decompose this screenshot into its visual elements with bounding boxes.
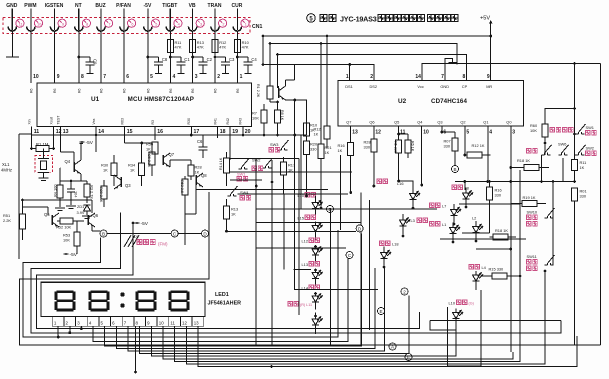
svg-text:5: 5 (155, 22, 157, 26)
wire analog node row (59, 167, 62, 169)
svg-text:8: 8 (81, 74, 84, 80)
wire bus MR line (489, 35, 492, 38)
svg-text:DS2: DS2 (370, 84, 378, 89)
svg-text:C9: C9 (93, 59, 98, 65)
svg-text:R18 1K: R18 1K (517, 158, 530, 163)
crystal XL1 symbol (43, 149, 45, 159)
LED L1 timer minus (430, 222, 440, 226)
wire U2 DS1-DS2 bridge (350, 65, 374, 71)
svg-text:Q0: Q0 (506, 120, 512, 125)
LED L11 fry red (288, 302, 298, 306)
svg-text:L10: L10 (449, 301, 456, 306)
svg-text:JF5461AHER: JF5461AHER (208, 301, 242, 307)
node circle B2 (452, 166, 459, 173)
svg-text:R3: R3 (151, 120, 155, 125)
svg-text:1K: 1K (338, 148, 343, 153)
wire pin16 stub (154, 127, 156, 141)
CN1 circle 6 (128, 19, 136, 27)
resistor R29 2.4K (101, 186, 107, 199)
svg-text:SW1: SW1 (586, 125, 594, 130)
resistor R10 1K col (304, 123, 310, 136)
wire pin19 stub (229, 127, 231, 161)
svg-text:2.2K: 2.2K (3, 218, 11, 223)
svg-text:4: 4 (178, 22, 180, 26)
transistor Q6 (87, 215, 89, 225)
svg-text:TRAN: TRAN (208, 3, 222, 9)
transistor Q4 (73, 162, 75, 172)
svg-text:ZD1: ZD1 (77, 204, 84, 209)
wire maze h 289 (295, 270, 378, 290)
wire maze h 194 (238, 193, 348, 195)
svg-text:SW10: SW10 (527, 210, 538, 215)
long bus under U1 pins (32, 134, 307, 136)
wire right border rail down (600, 64, 602, 346)
resistor R21 1K col2 (318, 144, 324, 159)
wire right junction row (455, 181, 575, 183)
svg-text:-5V: -5V (86, 140, 94, 146)
svg-text:R5 330: R5 330 (394, 141, 398, 153)
resistor R13 1K vertical mid2 (224, 206, 230, 219)
svg-text:R63: R63 (120, 118, 124, 124)
svg-text:7: 7 (441, 74, 444, 80)
svg-text:SW6: SW6 (558, 142, 566, 147)
svg-text:C8: C8 (162, 57, 168, 62)
LED L16 right of chain (377, 179, 387, 183)
shift register U2 box (338, 81, 524, 127)
CN1 circle 9 (58, 19, 66, 27)
svg-text:CD74HC164: CD74HC164 (431, 98, 467, 105)
svg-text:R1 2.2K: R1 2.2K (256, 84, 260, 98)
svg-text:17: 17 (194, 129, 200, 135)
svg-text:Q4: Q4 (417, 120, 423, 125)
svg-text:Q3: Q3 (437, 120, 442, 125)
resistor R14 1K vertical (224, 158, 230, 173)
svg-text:L18: L18 (392, 242, 399, 247)
wire U2 GND elbow and ground (445, 59, 453, 65)
svg-text:5: 5 (466, 130, 469, 136)
-5V arrow analog (80, 141, 85, 143)
wire CN1 VB to U1 pin 3 (192, 31, 194, 83)
display colon dots (120, 292, 124, 296)
key switch SW8 right col 2 (576, 145, 586, 155)
svg-text:(FM): (FM) (158, 242, 168, 247)
wire maze h 222 (256, 222, 361, 224)
wire maze h 209 (256, 208, 437, 210)
wire CN1 IGSTEN to U1 pin 9 (54, 31, 56, 83)
wires display pins 1-3 drop to rings (57, 326, 59, 337)
svg-text:11: 11 (400, 130, 406, 136)
svg-text:R15 330: R15 330 (489, 267, 505, 272)
CN1 circle 8 (82, 19, 90, 27)
resistor R01 330 right col (572, 188, 578, 201)
key switch SW2 hotpot (263, 158, 273, 168)
svg-text:9: 9 (62, 22, 64, 26)
wire maze v 301 (300, 136, 302, 210)
resistor R7 10K (261, 110, 267, 123)
resistor R31 2.2K (182, 179, 188, 195)
svg-text:R29 2.4K: R29 2.4K (99, 187, 103, 203)
svg-text:E: E (379, 309, 382, 314)
svg-text:TIGBT: TIGBT (162, 3, 177, 9)
U2 top pin 2 DS2 (373, 70, 375, 81)
svg-text:R6: R6 (236, 88, 240, 93)
CN1 circle 5 (151, 19, 159, 27)
wire CN1 -5V to U1 pin 5 (147, 31, 149, 83)
svg-text:1K: 1K (146, 147, 151, 152)
key switch SW4 menu (228, 186, 238, 196)
svg-text:R6: R6 (100, 88, 104, 93)
wire mid right rail stub (545, 109, 575, 125)
svg-text:4MHz: 4MHz (1, 168, 12, 173)
resistor R53 10K vertical (74, 232, 80, 246)
svg-text:10K: 10K (530, 128, 537, 133)
svg-text:1K: 1K (325, 150, 330, 155)
node circle D2 mid row (202, 230, 209, 237)
title text JiuYang JYC-19AS3 induction cooker control board schematic (320, 15, 336, 22)
svg-text:3: 3 (512, 130, 515, 136)
svg-text:-5V: -5V (141, 221, 149, 227)
svg-text:3.9V: 3.9V (77, 210, 85, 215)
svg-text:9: 9 (57, 74, 60, 80)
svg-text:47K: 47K (242, 45, 249, 50)
svg-text:Q4: Q4 (65, 159, 71, 164)
svg-text:CN1: CN1 (252, 24, 262, 30)
LED L3 small fire (400, 216, 411, 230)
svg-text:Vcc: Vcc (417, 84, 424, 89)
transistor Q7 (162, 155, 164, 165)
ground below crystal (39, 177, 49, 179)
svg-text:1K: 1K (103, 168, 108, 173)
svg-text:1: 1 (240, 74, 243, 80)
wire CN1 TRAN to U1 pin 2 (214, 31, 216, 83)
filter resistors R11 R13 R12 R10 47K (167, 40, 173, 53)
svg-text:L7: L7 (442, 204, 446, 209)
svg-text:6: 6 (126, 74, 129, 80)
svg-text:R30: R30 (187, 118, 191, 124)
svg-text:13: 13 (352, 130, 358, 136)
svg-text:10K: 10K (63, 238, 70, 243)
svg-text:-5V: -5V (144, 3, 152, 9)
svg-text:R42: R42 (226, 118, 230, 124)
svg-text:C2: C2 (207, 57, 213, 62)
wire pin18 stub (217, 127, 219, 139)
node circle D (356, 225, 363, 232)
svg-text:R52 10K: R52 10K (56, 225, 72, 230)
resistor R51 2.2K (20, 214, 26, 229)
U2 top pin 7 GND (444, 64, 446, 81)
svg-text:14: 14 (415, 74, 421, 80)
wire L16 link (399, 181, 413, 187)
svg-text:10: 10 (33, 74, 39, 80)
svg-text:NT: NT (75, 3, 82, 9)
svg-text:330: 330 (364, 145, 371, 150)
wire -5V mid tap (135, 222, 140, 224)
svg-text:19: 19 (232, 129, 238, 135)
svg-text:1: 1 (245, 22, 247, 26)
svg-text:8: 8 (463, 74, 466, 80)
svg-text:U1: U1 (91, 96, 100, 103)
svg-text:MR: MR (486, 84, 492, 89)
svg-text:(R) L11: (R) L11 (300, 303, 312, 307)
resistor R17 1K vertical mid (281, 162, 287, 175)
svg-text:L1: L1 (442, 222, 446, 227)
wire maze h 269 (293, 268, 311, 270)
U2 top pin 8 CP (465, 64, 467, 81)
svg-text:330: 330 (444, 144, 451, 149)
wire pin4 down (487, 126, 489, 183)
svg-text:R4 100: R4 100 (53, 184, 58, 197)
svg-text:R6: R6 (147, 88, 151, 93)
resistor R30a 1K (111, 163, 117, 176)
wire left routing rail (18, 134, 20, 259)
svg-text:2: 2 (403, 289, 406, 294)
svg-text:1K: 1K (195, 170, 200, 175)
svg-text:10: 10 (37, 22, 41, 26)
svg-text:L9: L9 (134, 234, 138, 239)
capacitor C6 (191, 134, 203, 136)
resistor R60 10K top right (542, 124, 548, 137)
wire mid vertical q8 down (184, 214, 186, 245)
wire pin5 down (464, 126, 466, 155)
svg-text:C1: C1 (184, 57, 190, 62)
svg-text:7: 7 (103, 74, 106, 80)
svg-text:330: 330 (495, 193, 502, 198)
svg-text:4: 4 (173, 74, 176, 80)
svg-text:R14 1K: R14 1K (219, 157, 223, 170)
svg-text:6: 6 (131, 22, 133, 26)
wire CN1 BUZ to U1 pin 7 (100, 31, 102, 83)
svg-text:Q7: Q7 (169, 152, 175, 157)
resistor R16 1K under U2 pin13 (350, 126, 352, 143)
wire maze h 172 (230, 171, 352, 173)
svg-text:1K: 1K (580, 165, 585, 170)
svg-text:R26 2.2K: R26 2.2K (147, 152, 151, 168)
wire maze v 272 (271, 160, 273, 345)
U2 top pin 9 MR (490, 64, 492, 81)
svg-text:R6: R6 (169, 88, 173, 93)
resistor R34 1K (139, 163, 145, 176)
svg-text:R6 1K: R6 1K (411, 141, 415, 152)
CN1 circle 4 (174, 19, 182, 27)
svg-text:47K: 47K (197, 45, 204, 50)
wires display pins 4-13 fan right (93, 258, 348, 342)
key switch SW3 boil (279, 140, 289, 150)
wire pin20 stub (242, 127, 244, 136)
buzzer hatch symbol (124, 235, 139, 247)
svg-text:R1 1M: R1 1M (36, 142, 49, 147)
svg-text:330: 330 (310, 147, 317, 152)
svg-text:Q6: Q6 (93, 213, 99, 218)
wire maze v 298 (298, 159, 300, 315)
svg-text:Q5: Q5 (44, 212, 50, 217)
svg-text:10: 10 (159, 320, 164, 325)
svg-text:VB: VB (189, 3, 196, 9)
svg-text:16: 16 (157, 129, 163, 135)
display pin strip cells (52, 317, 64, 327)
svg-text:9: 9 (487, 74, 490, 80)
svg-text:SW2: SW2 (586, 146, 594, 151)
resistor R26 2.2K (149, 152, 155, 165)
svg-text:SW3: SW3 (270, 142, 278, 147)
svg-text:Q5: Q5 (394, 120, 399, 125)
pink label reserve timer (550, 128, 573, 133)
svg-text:1K: 1K (231, 212, 236, 217)
wire bottom of r7 r8 bus (263, 134, 266, 137)
svg-text:R6: R6 (77, 88, 81, 93)
wire right zone L rect (448, 290, 482, 366)
svg-text:12: 12 (182, 320, 187, 325)
CN1 circle 1 (241, 19, 249, 27)
wire maze v 256 (255, 158, 257, 345)
CN1 circle 7 (105, 19, 113, 27)
LED L7 keep warm (430, 203, 440, 207)
wire CN1 P/FAN to U1 pin 6 (123, 31, 125, 83)
svg-text:18: 18 (220, 129, 226, 135)
wire maze v 340 (340, 155, 342, 230)
key switch SW7 mid (559, 145, 569, 155)
resistor R07 330 under U2 pin6 (441, 126, 443, 132)
wire ring D around display (19, 192, 265, 345)
svg-text:L2: L2 (472, 216, 476, 221)
svg-text:R52 2.6: R52 2.6 (180, 180, 184, 193)
U2 top pin 1 DS1 (349, 70, 351, 81)
svg-text:P/FAN: P/FAN (116, 3, 131, 9)
wire maze h 158 (230, 158, 299, 160)
wire CN1 TIGBT to U1 pin 4 (169, 31, 171, 83)
resistor R5 330 under U2 pin11 (398, 126, 400, 140)
wire pin15 stub down (124, 127, 126, 144)
node circle C2 mid row (171, 230, 178, 237)
svg-text:R43: R43 (238, 118, 242, 124)
wire maze h 248 (256, 247, 346, 249)
svg-text:GND: GND (6, 3, 18, 9)
svg-text:(G): (G) (469, 302, 474, 306)
wire maze v 322 (330, 208, 332, 345)
svg-text:DS1: DS1 (345, 84, 353, 89)
svg-text:SW11: SW11 (527, 254, 537, 259)
svg-text:Vss: Vss (92, 118, 96, 124)
wire right rows (459, 203, 520, 205)
wire pin15 node lines (125, 142, 152, 144)
svg-text:CUR: CUR (231, 3, 242, 9)
wire q7 q8 links (169, 160, 171, 167)
CN1 circle 3 (196, 19, 204, 27)
wire bus CP line (278, 55, 467, 89)
svg-text:R41: R41 (213, 118, 217, 124)
wire pin12 stub (53, 127, 55, 149)
svg-text:1K: 1K (130, 168, 135, 173)
svg-text:XL1: XL1 (2, 162, 10, 167)
-5V arrow lower left (64, 253, 69, 255)
MCU U1 box (37, 83, 252, 127)
node circle C (346, 252, 353, 259)
capacitor C9 on NT line (77, 56, 80, 59)
svg-text:TEST: TEST (56, 115, 60, 125)
resistor R3 2.7K vertical (84, 184, 90, 197)
LED L18 lower mid (380, 241, 390, 245)
transistor Q5 (51, 215, 53, 225)
wire CN1 PWM to U1 pin 10 (30, 31, 32, 83)
wire pin11 stub (31, 127, 33, 149)
U2 top pin 14 Vcc (421, 64, 423, 81)
svg-text:R8 1K: R8 1K (280, 110, 284, 121)
LED display LED1 box (41, 282, 205, 316)
wire bus DS line (270, 44, 457, 65)
wire right verticals (464, 183, 466, 190)
svg-text:B: B (453, 167, 456, 172)
svg-text:U2: U2 (398, 98, 407, 105)
svg-text:1K: 1K (314, 132, 319, 137)
svg-text:C6: C6 (197, 139, 203, 144)
svg-text:Q1: Q1 (483, 120, 488, 125)
wire pin13 TEST stub down (60, 127, 62, 153)
svg-text:L12: L12 (302, 239, 309, 244)
svg-text:2: 2 (217, 74, 220, 80)
wire CN1 CUR to U1 pin 1 (236, 31, 238, 83)
svg-text:R12 1K: R12 1K (472, 143, 485, 148)
svg-text:MCU HMS87C1204AP: MCU HMS87C1204AP (128, 96, 194, 103)
svg-text:1: 1 (346, 74, 349, 80)
svg-text:Q6: Q6 (369, 120, 374, 125)
svg-text:2: 2 (370, 74, 373, 80)
resistor R52 10K horizontal (60, 218, 73, 224)
LED L4 lower (469, 265, 479, 269)
svg-text:3: 3 (195, 74, 198, 80)
svg-text:R6: R6 (53, 88, 57, 93)
junction dots mid band (314, 245, 317, 248)
wire maze h 231 (227, 230, 357, 232)
svg-text:15: 15 (127, 129, 133, 135)
resistor R4 100 vertical (57, 185, 63, 198)
wire inner right rail down (573, 62, 576, 65)
svg-text:13: 13 (194, 320, 199, 325)
svg-text:4: 4 (489, 130, 492, 136)
svg-text:C3: C3 (229, 57, 235, 62)
svg-text:L13: L13 (302, 262, 309, 267)
wire CN1 NT to U1 pin 8 (78, 31, 80, 83)
resistor R50 1K (152, 142, 158, 154)
key switch SW1 cook (239, 159, 249, 169)
node circle B near Q6 (100, 230, 107, 237)
title circled 5 (307, 14, 316, 23)
svg-text:11: 11 (170, 320, 175, 325)
resistor R8 1K (275, 110, 281, 123)
wire pin3 col down segments (510, 168, 512, 353)
wire maze v 284 (283, 194, 285, 269)
connector CN1 dashed outline (3, 18, 250, 34)
svg-text:7: 7 (108, 22, 110, 26)
wire maze v 369 (368, 200, 370, 330)
svg-text:14: 14 (98, 129, 104, 135)
svg-text:JYC-19AS3: JYC-19AS3 (340, 14, 377, 23)
wire right riser 576 to bottom rail (574, 336, 576, 345)
svg-text:LED1: LED1 (215, 292, 229, 298)
svg-text:B: B (102, 231, 105, 236)
node circle A (389, 343, 396, 350)
resistor R28b 1K (188, 165, 194, 176)
svg-text:Q8: Q8 (201, 173, 207, 178)
wire maze h 189 (196, 188, 328, 190)
svg-text:BUZ: BUZ (95, 3, 105, 9)
capacitor C7 104 (70, 181, 72, 189)
svg-text:R6: R6 (214, 88, 218, 93)
svg-text:R19 1K: R19 1K (523, 195, 536, 200)
transistor Q8 (195, 175, 197, 185)
wire maze v 360 (360, 193, 362, 225)
zener ZD1 (84, 205, 91, 211)
resistor R20 330 col (304, 141, 310, 155)
wire ring C around display (37, 223, 420, 329)
